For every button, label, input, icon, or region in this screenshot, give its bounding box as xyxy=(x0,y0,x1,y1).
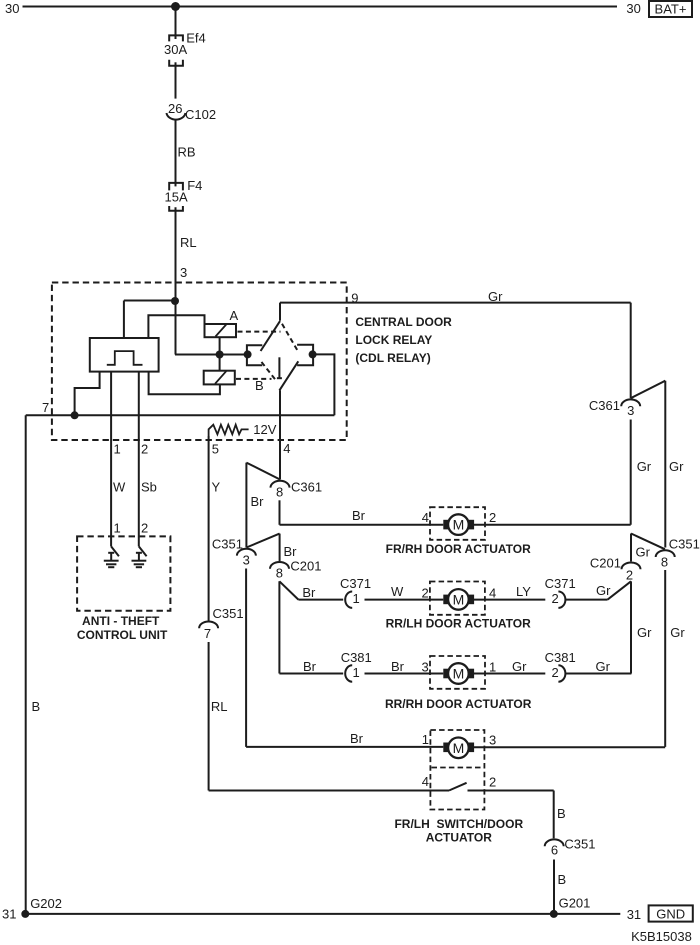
svg-text:Br: Br xyxy=(350,731,364,746)
svg-text:Br: Br xyxy=(251,494,265,509)
svg-text:4: 4 xyxy=(422,510,429,525)
svg-text:LOCK RELAY: LOCK RELAY xyxy=(355,333,432,347)
svg-text:CONTROL UNIT: CONTROL UNIT xyxy=(77,628,168,642)
svg-text:Gr: Gr xyxy=(488,289,503,304)
svg-text:4: 4 xyxy=(489,585,496,600)
svg-text:1: 1 xyxy=(353,665,360,680)
svg-text:B: B xyxy=(32,699,41,714)
svg-text:C361: C361 xyxy=(291,479,322,494)
svg-text:Gr: Gr xyxy=(670,625,685,640)
svg-text:1: 1 xyxy=(114,442,121,457)
svg-text:31: 31 xyxy=(627,907,641,922)
svg-text:K5B15038: K5B15038 xyxy=(631,929,692,944)
svg-text:3: 3 xyxy=(243,552,250,567)
svg-text:7: 7 xyxy=(42,400,49,415)
svg-text:RL: RL xyxy=(180,235,197,250)
svg-text:31: 31 xyxy=(2,907,16,922)
svg-text:3: 3 xyxy=(627,403,634,418)
svg-text:2: 2 xyxy=(552,665,559,680)
svg-text:7: 7 xyxy=(204,626,211,641)
svg-text:Gr: Gr xyxy=(636,545,651,560)
svg-text:C361: C361 xyxy=(589,398,620,413)
svg-text:C201: C201 xyxy=(290,559,321,574)
svg-text:30: 30 xyxy=(5,1,19,16)
svg-text:Gr: Gr xyxy=(637,459,652,474)
svg-text:Gr: Gr xyxy=(596,659,611,674)
svg-text:1: 1 xyxy=(114,521,121,536)
svg-text:Ef4: Ef4 xyxy=(186,31,206,46)
svg-text:Br: Br xyxy=(302,585,316,600)
svg-text:Sb: Sb xyxy=(141,480,157,495)
svg-text:8: 8 xyxy=(661,554,668,569)
svg-text:8: 8 xyxy=(276,484,283,499)
svg-text:LY: LY xyxy=(516,584,531,599)
svg-text:F4: F4 xyxy=(187,178,202,193)
svg-text:Gr: Gr xyxy=(637,625,652,640)
svg-text:C351: C351 xyxy=(669,537,700,552)
svg-text:2: 2 xyxy=(552,591,559,606)
svg-text:26: 26 xyxy=(168,101,182,116)
svg-text:1: 1 xyxy=(489,659,496,674)
svg-text:Br: Br xyxy=(303,659,317,674)
svg-text:FR/LH SWITCH/DOOR: FR/LH SWITCH/DOOR xyxy=(394,817,523,831)
svg-text:B: B xyxy=(255,378,264,393)
svg-text:FR/RH DOOR ACTUATOR: FR/RH DOOR ACTUATOR xyxy=(386,542,531,556)
svg-text:2: 2 xyxy=(489,774,496,789)
svg-text:Gr: Gr xyxy=(669,459,684,474)
svg-text:6: 6 xyxy=(551,842,558,857)
svg-text:ACTUATOR: ACTUATOR xyxy=(426,831,493,845)
svg-text:Br: Br xyxy=(284,544,298,559)
svg-text:Gr: Gr xyxy=(512,659,527,674)
svg-text:GND: GND xyxy=(656,906,685,921)
svg-text:Br: Br xyxy=(352,508,366,523)
svg-text:C351: C351 xyxy=(213,606,244,621)
svg-text:5: 5 xyxy=(212,442,219,457)
svg-text:2: 2 xyxy=(422,585,429,600)
svg-text:Gr: Gr xyxy=(596,583,611,598)
svg-text:M: M xyxy=(453,591,465,607)
svg-text:M: M xyxy=(453,740,465,756)
svg-text:CENTRAL DOOR: CENTRAL DOOR xyxy=(355,315,452,329)
svg-text:G201: G201 xyxy=(559,895,591,910)
svg-text:30A: 30A xyxy=(164,42,187,57)
svg-text:C102: C102 xyxy=(185,107,216,122)
svg-text:3: 3 xyxy=(180,265,187,280)
svg-text:Br: Br xyxy=(391,659,405,674)
svg-text:M: M xyxy=(453,666,465,682)
svg-text:C351: C351 xyxy=(212,537,243,552)
svg-text:RR/RH DOOR ACTUATOR: RR/RH DOOR ACTUATOR xyxy=(385,697,532,711)
svg-text:ANTI - THEFT: ANTI - THEFT xyxy=(82,614,160,628)
svg-text:B: B xyxy=(557,806,566,821)
svg-text:1: 1 xyxy=(353,591,360,606)
svg-text:C371: C371 xyxy=(545,576,576,591)
svg-text:2: 2 xyxy=(141,521,148,536)
svg-text:C351: C351 xyxy=(564,836,595,851)
svg-text:M: M xyxy=(453,517,465,533)
svg-text:B: B xyxy=(558,872,567,887)
svg-text:1: 1 xyxy=(422,732,429,747)
svg-text:3: 3 xyxy=(422,659,429,674)
svg-text:C371: C371 xyxy=(340,576,371,591)
svg-text:C381: C381 xyxy=(545,650,576,665)
svg-text:2: 2 xyxy=(141,442,148,457)
svg-text:2: 2 xyxy=(489,510,496,525)
svg-text:4: 4 xyxy=(283,441,290,456)
svg-text:30: 30 xyxy=(626,1,640,16)
svg-text:12V: 12V xyxy=(253,422,276,437)
svg-text:2: 2 xyxy=(626,568,633,583)
svg-text:A: A xyxy=(230,308,239,323)
svg-text:W: W xyxy=(113,480,126,495)
svg-text:Y: Y xyxy=(212,480,221,495)
svg-text:15A: 15A xyxy=(165,190,188,205)
svg-text:C381: C381 xyxy=(341,650,372,665)
svg-text:RL: RL xyxy=(211,699,228,714)
svg-text:W: W xyxy=(391,584,404,599)
svg-text:C201: C201 xyxy=(590,556,621,571)
svg-text:3: 3 xyxy=(489,733,496,748)
svg-text:BAT+: BAT+ xyxy=(655,2,687,17)
svg-text:(CDL RELAY): (CDL RELAY) xyxy=(355,351,430,365)
svg-text:RB: RB xyxy=(178,145,196,160)
svg-text:G202: G202 xyxy=(30,896,62,911)
svg-text:4: 4 xyxy=(422,774,429,789)
svg-text:8: 8 xyxy=(276,566,283,581)
svg-text:RR/LH DOOR ACTUATOR: RR/LH DOOR ACTUATOR xyxy=(386,617,531,631)
